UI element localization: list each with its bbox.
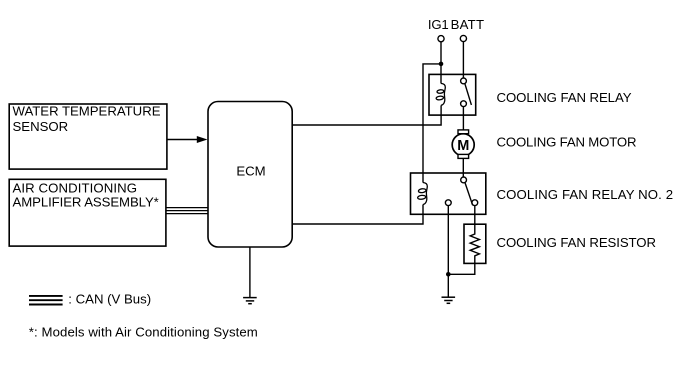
svg-text:IG1: IG1 bbox=[428, 17, 449, 32]
wire relay K2 coil to ECM bbox=[292, 205, 423, 225]
svg-text:WATER TEMPERATURE: WATER TEMPERATURE bbox=[13, 104, 161, 119]
svg-text:SENSOR: SENSOR bbox=[13, 119, 69, 134]
relay K1 armature bbox=[465, 83, 472, 105]
wire IG1 to relay coil R1 bbox=[440, 42, 442, 84]
box water temperature sensor bbox=[9, 104, 167, 169]
ground ECM bbox=[243, 298, 257, 304]
relay K2 switch contact bottom-right bbox=[472, 200, 478, 206]
svg-text:AIR CONDITIONING: AIR CONDITIONING bbox=[13, 180, 138, 195]
motor M (COOLING FAN MOTOR) bbox=[452, 134, 474, 156]
svg-text:ECM: ECM bbox=[236, 163, 265, 178]
svg-text:AMPLIFIER ASSEMBLY*: AMPLIFIER ASSEMBLY* bbox=[13, 194, 159, 209]
svg-text:M: M bbox=[457, 138, 469, 154]
label air conditioning amplifier assembly bbox=[13, 180, 159, 209]
relay K2 armature bbox=[465, 182, 473, 205]
motor brush bottom bbox=[458, 154, 469, 158]
relay K1 coil bbox=[441, 83, 445, 105]
svg-text:COOLING FAN RESISTOR: COOLING FAN RESISTOR bbox=[497, 235, 657, 250]
CAN bus triple line bbox=[166, 208, 208, 214]
relay K1 switch contact bottom bbox=[461, 101, 467, 107]
terminal IG1 bbox=[438, 36, 444, 42]
relay K2 coil bbox=[423, 183, 427, 205]
wire BATT to relay 1 switch bbox=[462, 42, 464, 78]
node ground junction bbox=[446, 272, 451, 277]
relay K1 box (COOLING FAN RELAY) bbox=[429, 74, 476, 115]
wire motor to relay K2 switch bbox=[462, 158, 464, 177]
wire relay K2 left throw to ground bbox=[447, 206, 449, 298]
node junction IG1 bbox=[439, 62, 444, 67]
svg-text:COOLING FAN RELAY: COOLING FAN RELAY bbox=[497, 90, 632, 105]
resistor box (COOLING FAN RESISTOR) bbox=[464, 224, 486, 263]
motor brush top bbox=[458, 130, 469, 134]
legend CAN swatch bbox=[29, 296, 63, 305]
wire resistor to ground node bbox=[448, 263, 475, 274]
svg-text:COOLING FAN MOTOR: COOLING FAN MOTOR bbox=[497, 134, 637, 149]
ECM box bbox=[208, 102, 292, 248]
svg-text:: CAN (V Bus): : CAN (V Bus) bbox=[68, 291, 151, 306]
relay K2 switch contact bottom-left bbox=[445, 200, 451, 206]
resistor element bbox=[470, 227, 479, 263]
wire relay K1 switch to motor bbox=[462, 107, 464, 130]
wire junction to left drop bbox=[423, 64, 441, 183]
svg-text:COOLING FAN RELAY NO. 2: COOLING FAN RELAY NO. 2 bbox=[497, 187, 674, 202]
label water temperature sensor bbox=[13, 104, 161, 134]
relay K2 box (COOLING FAN RELAY NO. 2) bbox=[411, 173, 486, 214]
wire ECM to ground bbox=[249, 247, 251, 298]
svg-text:*: Models with Air Conditionin: *: Models with Air Conditioning System bbox=[29, 324, 258, 339]
arrow sensor to ECM bbox=[167, 139, 200, 141]
terminal BATT bbox=[460, 35, 466, 41]
box air conditioning amplifier assembly bbox=[9, 179, 166, 246]
wire relay K2 right throw to resistor bbox=[474, 206, 476, 227]
relay K2 switch contact top bbox=[461, 177, 467, 183]
ground right bbox=[442, 297, 456, 303]
svg-text:BATT: BATT bbox=[451, 17, 484, 32]
relay K1 switch contact top bbox=[461, 78, 467, 84]
wire relay K1 coil to ECM bbox=[292, 105, 441, 125]
